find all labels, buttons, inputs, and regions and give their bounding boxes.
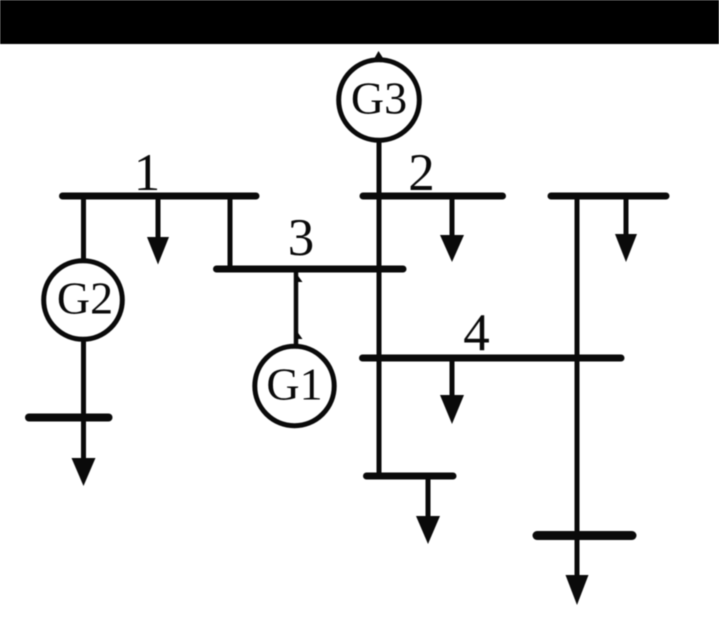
arrow below bottom right bus bbox=[566, 535, 589, 605]
load arrow on right top bus bbox=[615, 196, 637, 262]
bottom right bus bbox=[537, 531, 632, 540]
svg-text:G3: G3 bbox=[351, 73, 407, 124]
svg-text:3: 3 bbox=[288, 209, 315, 267]
load arrow on bus 4 bbox=[440, 358, 464, 424]
wire G3 to bottom bus (vertical through bus 2, bus 3, bus 4) bbox=[377, 140, 382, 476]
svg-text:1: 1 bbox=[134, 144, 161, 202]
generator G1 bbox=[255, 346, 334, 425]
svg-text:2: 2 bbox=[408, 144, 435, 202]
svg-text:G1: G1 bbox=[266, 359, 322, 410]
wire below G2 bbox=[81, 340, 86, 460]
svg-text:4: 4 bbox=[463, 304, 490, 362]
generator G2 bbox=[44, 261, 123, 340]
top black banner bbox=[0, 0, 719, 44]
wire bus1 to bus3 bbox=[228, 194, 233, 269]
arrow below G2 bar bbox=[72, 458, 96, 486]
bus 1 bbox=[63, 193, 257, 200]
load arrow below bottom middle bus bbox=[416, 476, 440, 544]
svg-text:G2: G2 bbox=[57, 273, 113, 324]
load arrow on bus 2 bbox=[440, 196, 464, 262]
wire bus1 to G2 bbox=[81, 194, 86, 262]
wire bus 3 to G1 (with small direction ticks) bbox=[296, 269, 303, 346]
bus 4 bbox=[363, 355, 622, 362]
bus 2 bbox=[363, 193, 503, 200]
right top bus bbox=[551, 193, 666, 200]
G2 bottom bus bar bbox=[29, 414, 109, 422]
bus 3 bbox=[217, 266, 404, 273]
generator G3 bbox=[339, 51, 420, 140]
load arrow on bus 1 bbox=[147, 196, 169, 265]
bottom middle bus bbox=[367, 473, 454, 480]
wire right bus down to bottom right bus bbox=[575, 196, 580, 535]
